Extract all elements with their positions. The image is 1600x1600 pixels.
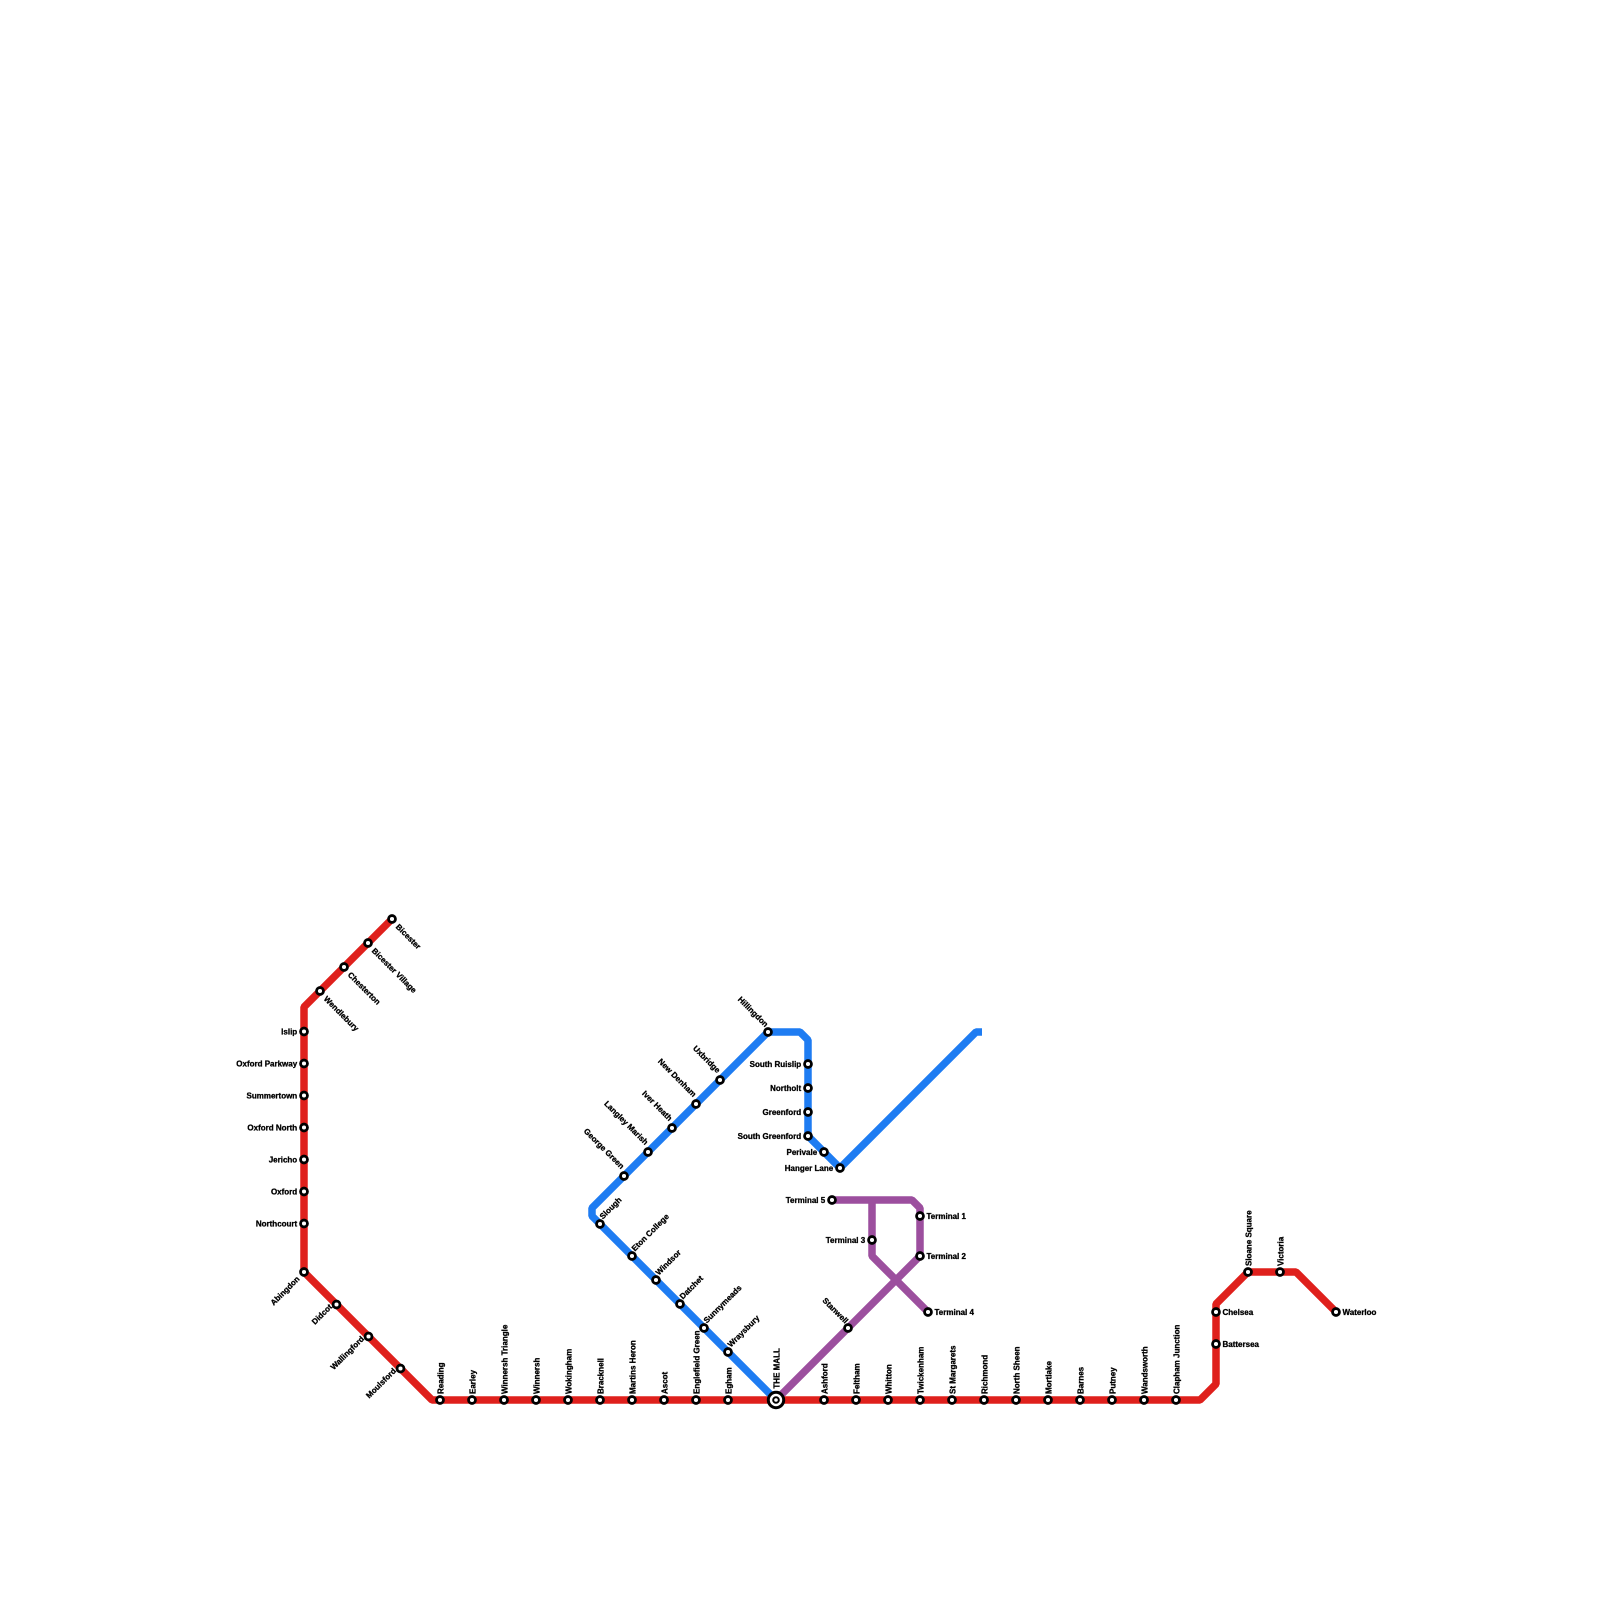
svg-text:Northolt: Northolt bbox=[770, 1084, 801, 1093]
svg-text:Hanger Lane: Hanger Lane bbox=[785, 1164, 834, 1173]
svg-text:Clapham Junction: Clapham Junction bbox=[1172, 1325, 1181, 1394]
svg-text:Terminal 1: Terminal 1 bbox=[927, 1212, 967, 1221]
svg-text:Terminal 2: Terminal 2 bbox=[927, 1252, 967, 1261]
svg-text:Oxford: Oxford bbox=[271, 1187, 297, 1196]
svg-text:Wokingham: Wokingham bbox=[564, 1349, 573, 1394]
svg-text:Mortlake: Mortlake bbox=[1044, 1361, 1053, 1394]
svg-text:Richmond: Richmond bbox=[980, 1355, 989, 1394]
svg-text:Reading: Reading bbox=[436, 1362, 445, 1394]
svg-text:Victoria: Victoria bbox=[1276, 1236, 1285, 1266]
svg-text:Greenford: Greenford bbox=[763, 1108, 802, 1117]
svg-text:South Ruislip: South Ruislip bbox=[750, 1060, 802, 1069]
svg-text:Egham: Egham bbox=[724, 1367, 733, 1394]
svg-text:Northcourt: Northcourt bbox=[256, 1219, 298, 1228]
svg-text:Englefield Green: Englefield Green bbox=[692, 1330, 701, 1394]
svg-text:Oxford Parkway: Oxford Parkway bbox=[236, 1059, 297, 1068]
svg-text:South Greenford: South Greenford bbox=[738, 1132, 802, 1141]
svg-text:Chelsea: Chelsea bbox=[1223, 1308, 1254, 1317]
svg-text:Ashford: Ashford bbox=[820, 1363, 829, 1394]
svg-text:Oxford North: Oxford North bbox=[247, 1123, 297, 1132]
svg-text:Waterloo: Waterloo bbox=[1343, 1308, 1377, 1317]
svg-text:Bracknell: Bracknell bbox=[596, 1358, 605, 1394]
svg-text:Terminal 5: Terminal 5 bbox=[786, 1196, 826, 1205]
svg-text:Winnersh Triangle: Winnersh Triangle bbox=[500, 1324, 509, 1394]
svg-text:Feltham: Feltham bbox=[852, 1363, 861, 1394]
svg-text:Twickenham: Twickenham bbox=[916, 1347, 925, 1394]
svg-text:Terminal 4: Terminal 4 bbox=[935, 1308, 975, 1317]
svg-text:Earley: Earley bbox=[468, 1369, 477, 1394]
svg-text:Islip: Islip bbox=[281, 1027, 297, 1036]
svg-text:Whitton: Whitton bbox=[884, 1364, 893, 1394]
svg-text:THE MALL: THE MALL bbox=[772, 1348, 781, 1389]
svg-text:Battersea: Battersea bbox=[1223, 1340, 1260, 1349]
svg-text:Jericho: Jericho bbox=[269, 1155, 298, 1164]
svg-text:North Sheen: North Sheen bbox=[1012, 1346, 1021, 1394]
svg-text:Ascot: Ascot bbox=[660, 1371, 669, 1394]
svg-text:Summertown: Summertown bbox=[247, 1091, 298, 1100]
svg-text:St Margarets: St Margarets bbox=[948, 1345, 957, 1394]
svg-text:Wandsworth: Wandsworth bbox=[1140, 1346, 1149, 1394]
svg-text:Martins Heron: Martins Heron bbox=[628, 1340, 637, 1394]
svg-text:Sloane Square: Sloane Square bbox=[1244, 1210, 1253, 1266]
svg-text:Barnes: Barnes bbox=[1076, 1366, 1085, 1394]
svg-text:Perivale: Perivale bbox=[786, 1148, 817, 1157]
svg-text:Putney: Putney bbox=[1108, 1367, 1117, 1394]
svg-text:Winnersh: Winnersh bbox=[532, 1358, 541, 1394]
svg-text:Terminal 3: Terminal 3 bbox=[826, 1236, 866, 1245]
